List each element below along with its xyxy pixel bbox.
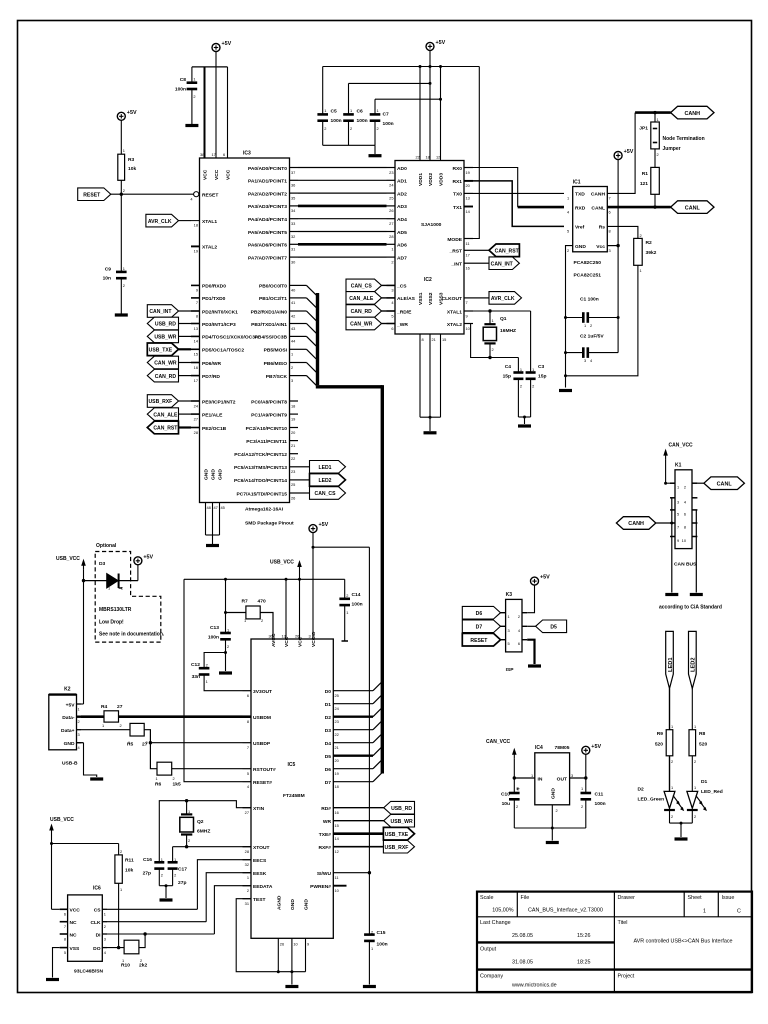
svg-text:39k2: 39k2 [646, 250, 657, 256]
svg-text:9: 9 [677, 538, 679, 543]
title block [477, 892, 752, 992]
pin RESET# stub IC5 [243, 781, 252, 783]
svg-text:27p: 27p [178, 880, 186, 886]
svg-text:23: 23 [389, 170, 393, 175]
svg-text:2: 2 [247, 888, 249, 893]
svg-text:+5V: +5V [143, 554, 153, 560]
svg-text:D3: D3 [99, 561, 106, 567]
net arrow CAN_VCC K1 [663, 449, 668, 460]
wire CAN_ALE to IC2 [382, 297, 387, 299]
svg-text:CANL: CANL [717, 481, 733, 487]
crystal Q2 top plate [181, 813, 192, 815]
pin PA0/AD0/PCINT0 stub [290, 167, 299, 169]
wire TEST to gnd rail [236, 899, 305, 972]
svg-text:C13: C13 [210, 625, 219, 631]
wire C7 bottom [374, 121, 376, 146]
wire C3 top [530, 311, 532, 373]
svg-text:2: 2 [581, 804, 583, 809]
svg-text:Drawer: Drawer [618, 895, 636, 901]
wire gnd rail IC4 [514, 827, 586, 829]
svg-text:2: 2 [120, 723, 122, 728]
wire AD3 bus PA3 to IC2 [298, 205, 387, 208]
pin PA4/AD4/PCINT4 stub [290, 218, 299, 220]
svg-text:CAN_ALE: CAN_ALE [349, 296, 374, 302]
ground C8 [185, 124, 198, 127]
IC U3 Atmega162 body [200, 158, 290, 503]
wire USB_VCC rail [184, 578, 345, 580]
svg-text:LED_Green: LED_Green [638, 797, 665, 803]
wire C2 right [588, 352, 618, 354]
svg-text:AD4: AD4 [397, 217, 407, 223]
wire to gnd [680, 823, 682, 837]
svg-text:R2: R2 [646, 240, 653, 246]
svg-text:2: 2 [104, 924, 106, 929]
wire R11 to DO [118, 883, 120, 947]
wire CANH to K1 [656, 522, 672, 524]
wire AD4 bus PA4 to IC2 [298, 218, 387, 220]
svg-text:PC6/A14/TDO/PCINT14: PC6/A14/TDO/PCINT14 [234, 478, 287, 484]
wire to gnd [551, 828, 553, 841]
svg-text:8: 8 [684, 525, 686, 530]
flag LED2 vertical [689, 631, 697, 688]
capacitor C7 [370, 114, 381, 120]
svg-text:RSTOUT#: RSTOUT# [253, 767, 276, 773]
flag CAN_RD [147, 369, 178, 382]
wire C3 bottom [530, 379, 532, 417]
svg-text:2: 2 [161, 873, 163, 878]
svg-text:R4: R4 [101, 704, 108, 710]
pin +5V stub K2 [77, 703, 82, 705]
ground K3 [528, 664, 541, 667]
pin PC5/A13/TMS/PCINT13 stub [290, 466, 299, 468]
flag CAN_INT at IC2 [489, 257, 519, 270]
flag USB_TXE [147, 343, 178, 356]
node R7 tap [224, 611, 227, 614]
pin VSS stub IC6 [60, 947, 68, 949]
K2 top edge thick [49, 693, 77, 695]
pin Data- stub K2 [77, 716, 82, 718]
svg-text:Low Drop!: Low Drop! [99, 620, 124, 626]
wire GND down [291, 938, 293, 984]
svg-text:17: 17 [194, 378, 198, 383]
wire D0 [333, 690, 373, 692]
crystal Q1 top plate [484, 323, 495, 325]
bus entry D2 [373, 707, 382, 716]
svg-text:PD0/RXD0: PD0/RXD0 [202, 284, 226, 290]
svg-text:Project: Project [618, 974, 635, 980]
wire C4 bottom [517, 379, 519, 417]
wire to USBDP [150, 742, 242, 744]
svg-text:PB7/SCK: PB7/SCK [266, 374, 288, 380]
svg-text:See note in documentation.: See note in documentation. [99, 632, 165, 638]
svg-text:D5: D5 [325, 754, 332, 760]
wire cap gnd rail [323, 144, 375, 146]
pin EESK stub IC5 [243, 872, 252, 874]
pin NC stub IC6 [60, 921, 68, 923]
wire VCC pin IC3 [215, 67, 217, 158]
svg-text:31.08.05: 31.08.05 [512, 960, 533, 966]
pin PD0/RXD0 stub [191, 284, 200, 286]
svg-text:Issue: Issue [722, 895, 735, 901]
node VCC1 rail [285, 578, 288, 581]
svg-text:R11: R11 [125, 858, 134, 864]
wire CAN_VCC down [513, 759, 515, 793]
wire AD1 bus PA1 to IC2 [298, 179, 387, 181]
LED D2 LED_Green [664, 791, 684, 811]
wire pin2 to +5V [527, 585, 534, 612]
svg-text:GND: GND [304, 899, 310, 910]
svg-text:D6: D6 [325, 767, 332, 773]
wire RXD thick [518, 206, 564, 209]
svg-text:19: 19 [194, 249, 198, 254]
wire D2 to gnd rail [669, 810, 671, 823]
wire VSS to gnd [53, 948, 60, 978]
connector K1 body [675, 470, 692, 549]
svg-text:6: 6 [684, 511, 686, 516]
pin PWREN# stub [333, 885, 346, 887]
svg-text:ISP: ISP [506, 667, 515, 673]
svg-text:15p: 15p [503, 374, 511, 380]
wire to R11 [52, 843, 119, 845]
svg-text:CS: CS [94, 908, 102, 914]
wire VDD2 vertical [429, 50, 431, 160]
svg-text:GND: GND [218, 469, 224, 480]
wire CLK [107, 921, 206, 923]
svg-text:CAN BUS: CAN BUS [674, 562, 697, 568]
svg-text:470: 470 [258, 599, 266, 605]
ground IC3 [206, 544, 219, 547]
svg-text:IC5: IC5 [288, 762, 296, 768]
svg-text:PA5/AD5/PCINT5: PA5/AD5/PCINT5 [248, 230, 287, 236]
pin USBDM stub IC5 [243, 715, 252, 718]
node C12 tap [224, 651, 227, 654]
svg-text:100n: 100n [377, 942, 388, 948]
wire R4 to USBDM thick [119, 715, 243, 718]
flag LED1 vertical [666, 631, 674, 688]
svg-text:VDD2: VDD2 [428, 173, 434, 186]
svg-text:R8: R8 [699, 731, 706, 737]
svg-text:2: 2 [346, 593, 348, 598]
wire to C17 [172, 847, 174, 863]
wire K1 odd pins to gnd [671, 498, 673, 593]
svg-text:23: 23 [335, 719, 339, 724]
node pin1 [664, 482, 667, 485]
wire pin6 to gnd [527, 640, 534, 664]
svg-text:RXF#: RXF# [318, 845, 331, 851]
svg-text:WR: WR [323, 819, 332, 825]
svg-text:_CS: _CS [396, 284, 407, 290]
pin USBDP stub IC5 [243, 742, 252, 744]
pin AD3 stub IC2 [387, 205, 396, 207]
svg-text:CLKOUT: CLKOUT [442, 296, 462, 302]
svg-text:CAN_BUS_Interface_v2.T3000: CAN_BUS_Interface_v2.T3000 [528, 908, 603, 914]
wire C14 bottom [344, 605, 346, 641]
svg-text:GND: GND [64, 741, 75, 747]
resistor R6 [157, 762, 172, 775]
wire +5V to C15 line [313, 546, 369, 548]
wire USB_WR to IC3 [179, 335, 192, 337]
wire MODE to +5V rail [473, 67, 479, 239]
svg-text:1: 1 [516, 786, 518, 791]
svg-text:CANL: CANL [591, 205, 605, 211]
resistor R8 [689, 730, 696, 756]
pin PD5/OC1A/TOSC2 stub [191, 348, 200, 350]
wire VSS to gnd [429, 417, 431, 431]
svg-text:6: 6 [64, 912, 66, 917]
node rail VDD2 [429, 65, 432, 68]
svg-text:22: 22 [291, 456, 295, 461]
bus entry PB3 [307, 324, 317, 334]
svg-text:27: 27 [117, 704, 123, 710]
flag CAN_RST [147, 421, 178, 434]
svg-text:RESET: RESET [83, 192, 101, 198]
svg-text:XTOUT: XTOUT [253, 845, 269, 851]
svg-text:22: 22 [335, 732, 339, 737]
wire C4 top [517, 358, 519, 373]
wire D1 [333, 703, 373, 705]
svg-text:D7: D7 [476, 625, 483, 631]
svg-text:32: 32 [245, 862, 249, 867]
pin AD5 stub IC2 [387, 231, 396, 233]
pin AD7 stub IC2 [387, 256, 396, 258]
svg-text:1: 1 [531, 773, 533, 778]
svg-text:D1: D1 [701, 779, 708, 785]
wire Q2 bottom [186, 835, 188, 847]
wire gnd stub IC3 [212, 535, 214, 544]
pin EEDATA stub IC5 [243, 885, 252, 887]
svg-text:GND: GND [290, 899, 296, 910]
wire GND pin IC3 [205, 503, 207, 536]
wire +5V pin to vertical [81, 703, 84, 705]
node JP1 top [653, 111, 656, 114]
svg-text:CAN_RD: CAN_RD [351, 309, 373, 315]
svg-text:Atmega162-16AI: Atmega162-16AI [245, 507, 284, 513]
node USBDP tap [149, 741, 152, 744]
node CANH bracket [670, 522, 673, 525]
node C7 tap [439, 98, 442, 101]
wire R5 to R6 [144, 730, 157, 769]
svg-text:1: 1 [657, 117, 659, 122]
pin PC2/A10/PCINT10 stub [290, 427, 299, 429]
flag CAN_ALE at IC2 [346, 292, 382, 305]
svg-text:NC: NC [70, 932, 78, 938]
svg-text:D3: D3 [325, 728, 332, 734]
svg-text:TXD: TXD [575, 192, 585, 198]
wire D2 [333, 716, 373, 718]
svg-text:PB6/MISO: PB6/MISO [264, 361, 288, 367]
svg-text:1: 1 [671, 785, 673, 790]
node rail VDD1 [419, 65, 422, 68]
wire TX0 to TXD [473, 192, 564, 194]
wire +5V to OUT node [585, 754, 587, 793]
svg-text:GND: GND [550, 788, 556, 799]
svg-text:CAN_CS: CAN_CS [351, 284, 373, 290]
wire rail to C8 [191, 67, 193, 83]
svg-text:10n: 10n [103, 276, 111, 282]
svg-text:5: 5 [247, 771, 249, 776]
svg-text:PD5/OC1A/TOSC2: PD5/OC1A/TOSC2 [202, 348, 244, 354]
svg-text:D1: D1 [325, 702, 332, 708]
svg-text:USB-B: USB-B [62, 761, 78, 767]
svg-text:2: 2 [123, 283, 125, 288]
svg-text:1: 1 [128, 740, 130, 745]
wire C15 bottom [368, 941, 370, 985]
node Q2 gnd [165, 884, 168, 887]
svg-text:C6: C6 [357, 109, 364, 115]
svg-text:D6: D6 [476, 611, 483, 617]
svg-text:PA0/AD0/PCINT0: PA0/AD0/PCINT0 [248, 166, 287, 172]
pin _RD/E stub IC2 [387, 310, 396, 312]
svg-text:R7: R7 [242, 599, 249, 605]
wire K1 pin6 to gnd [695, 510, 697, 593]
wire CAN_WR to IC2 [382, 323, 387, 325]
flag LED2 [310, 474, 346, 487]
node GND [290, 970, 293, 973]
resistor R2 [634, 238, 643, 265]
wire WR [333, 820, 384, 822]
svg-text:RX1: RX1 [452, 179, 462, 185]
svg-text:+5V: +5V [436, 40, 446, 46]
pin RSTOUT# stub IC5 [243, 768, 252, 770]
svg-text:2: 2 [206, 663, 208, 668]
resistor R4 [104, 711, 119, 722]
wire D1 to gnd rail [691, 810, 693, 823]
svg-text:2: 2 [193, 94, 195, 99]
svg-text:2: 2 [146, 740, 148, 745]
svg-text:520: 520 [655, 742, 663, 748]
svg-text:AD5: AD5 [397, 230, 407, 236]
svg-text:LED1: LED1 [668, 657, 674, 672]
wire XTAL2 route [464, 324, 518, 358]
wire USB_VCC vertical to K2 [83, 570, 85, 704]
svg-text:18: 18 [194, 223, 198, 228]
svg-text:TEST: TEST [253, 897, 266, 903]
svg-text:3: 3 [309, 634, 311, 639]
svg-text:21: 21 [291, 443, 295, 448]
wire +5V to R3 [120, 120, 122, 154]
wire VCC pin IC3 [204, 67, 206, 158]
node SI/WU [368, 871, 371, 874]
wire C7 tap [375, 98, 441, 100]
svg-text:_WR: _WR [396, 322, 408, 328]
wire PB5 to bus [298, 348, 307, 350]
svg-text:K3: K3 [506, 592, 513, 598]
svg-text:PE2/OC1B: PE2/OC1B [202, 426, 227, 432]
flag RESET [78, 188, 111, 201]
svg-text:GND: GND [211, 469, 217, 480]
svg-text:Q1: Q1 [500, 316, 507, 322]
wire CAN_ALE to IC3 [179, 413, 192, 415]
wire C6 top [348, 83, 350, 114]
wire USB_VCC to IC6 VCC [51, 835, 53, 910]
bus entry D0 [373, 681, 382, 690]
svg-text:+5V: +5V [591, 744, 601, 750]
bus entry D6 [373, 759, 382, 768]
pin PB0/OC0/T0 stub [290, 284, 299, 286]
svg-text:D2: D2 [638, 787, 645, 793]
pin 8 stub K1 right [692, 522, 697, 524]
svg-text:DO: DO [93, 946, 101, 952]
svg-text:2: 2 [291, 365, 293, 370]
wire K2 GND [84, 743, 97, 777]
pin CLKOUT stub IC2 [464, 297, 473, 299]
wire DO to R10 [107, 947, 124, 949]
node Q2 top [185, 799, 188, 802]
svg-text:3: 3 [104, 936, 106, 941]
svg-text:2: 2 [567, 248, 569, 253]
svg-text:100n: 100n [352, 602, 363, 608]
svg-text:1: 1 [520, 367, 522, 372]
wire IC4 GND down [551, 805, 553, 828]
wire R9 to D2 [669, 756, 671, 792]
flag CANL at K1 [704, 477, 745, 490]
svg-text:100n: 100n [175, 87, 186, 93]
svg-text:2k2: 2k2 [139, 963, 147, 969]
flag AVR_CLK at IC3 [146, 214, 179, 227]
svg-text:PE1/ALE: PE1/ALE [202, 412, 223, 418]
svg-text:Scale: Scale [480, 895, 494, 901]
svg-text:5: 5 [677, 511, 679, 516]
svg-text:7: 7 [609, 196, 611, 201]
svg-text:1: 1 [581, 786, 583, 791]
svg-text:11: 11 [466, 241, 470, 246]
svg-text:26: 26 [389, 208, 393, 213]
svg-text:EESK: EESK [253, 871, 267, 877]
net arrow USB_VCC IC6 [49, 824, 54, 835]
svg-text:according to CiA Standard: according to CiA Standard [659, 605, 722, 611]
pin DI stub IC6 [102, 933, 107, 935]
pin PB4/SS/OC3B stub [290, 335, 299, 337]
svg-text:10k: 10k [125, 868, 133, 874]
svg-text:USB_VCC: USB_VCC [56, 556, 80, 562]
wire pin4 to D5 flag [527, 625, 535, 627]
capacitor C11 [581, 793, 592, 799]
wire rail to RESET# [184, 579, 243, 781]
ground C9 [115, 313, 128, 316]
svg-text:PA3/AD3/PCINT3: PA3/AD3/PCINT3 [248, 204, 287, 210]
wire Q1 to XTAL2 line [489, 343, 491, 357]
pin PD2/INT0/XCK1 stub [191, 310, 200, 312]
svg-text:28: 28 [194, 430, 198, 435]
node Vcc junction [616, 244, 619, 247]
svg-text:AVR controlled USB<>CAN Bus In: AVR controlled USB<>CAN Bus Interface [633, 939, 732, 945]
wire VCC2 vertical [299, 571, 301, 639]
svg-text:MODE: MODE [447, 237, 462, 243]
svg-text:2: 2 [227, 644, 229, 649]
pin 5 stub K1 left [670, 509, 675, 511]
svg-text:C14: C14 [352, 592, 361, 598]
pin ALE/AS stub IC2 [387, 297, 396, 299]
wire PB3 to bus [298, 323, 307, 325]
svg-text:CAN_INT: CAN_INT [491, 261, 514, 267]
svg-text:XTAL2: XTAL2 [447, 322, 462, 328]
svg-text:18: 18 [335, 784, 339, 789]
wire D3 to +5V [119, 580, 138, 582]
pin PB5/MOSI stub [290, 348, 299, 350]
IC U6 93LC46B body [68, 895, 103, 961]
svg-text:2: 2 [391, 259, 393, 264]
wire LED gnd rail [670, 822, 693, 824]
svg-text:41: 41 [291, 300, 295, 305]
wire CAN_CS to IC2 [382, 284, 387, 286]
flag D5 [536, 620, 567, 633]
wire D5 [333, 755, 373, 757]
pin PD3/INT1/ICP3 stub [191, 323, 200, 325]
svg-text:33: 33 [291, 221, 295, 226]
pin RX0 stub IC2 [464, 167, 473, 169]
svg-text:520: 520 [699, 742, 707, 748]
wire to Q1 [489, 311, 491, 324]
